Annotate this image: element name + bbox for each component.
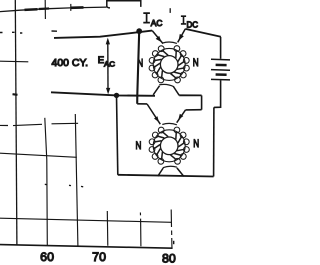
- arrowhead into T2 right winding: [178, 114, 183, 120]
- wire: battery top to corner: [220, 37, 222, 59]
- label I_DC: [181, 16, 198, 29]
- axis line bottom: [0, 245, 173, 249]
- svg-text:N: N: [137, 58, 143, 70]
- label N left of T1: [137, 58, 143, 70]
- svg-text:70: 70: [92, 250, 106, 264]
- wire: diagonal into T2 left winding: [147, 104, 160, 124]
- svg-text:60: 60: [40, 250, 54, 264]
- axis label 60: [40, 250, 54, 264]
- grid vertical line x=107: [106, 211, 109, 246]
- svg-text:AC: AC: [104, 60, 116, 69]
- wire: right side of lower loop: [213, 107, 215, 176]
- battery B1: [211, 59, 230, 80]
- svg-text:N: N: [136, 140, 142, 152]
- wire: top DC line: [185, 29, 221, 37]
- label 400 CY.: [52, 57, 89, 69]
- wire: down right of T1: [201, 95, 203, 109]
- curve thick dash 3: [71, 6, 84, 9]
- arrowhead I_AC into T1: [156, 36, 162, 42]
- axis label 70: [92, 250, 106, 264]
- grid h-line y=154: [0, 153, 77, 157]
- axis end double tick: [173, 241, 175, 244]
- grid h-line y=94 remnant: [13, 93, 18, 96]
- wire: stub to toroid T2 left: [137, 103, 147, 105]
- voltage arrow E_AC: [106, 38, 111, 95]
- junction dot B bottom wire: [114, 93, 119, 98]
- svg-text:AC: AC: [151, 19, 163, 28]
- wire: I_DC lead into T1: [178, 29, 186, 43]
- grid vertical tick x=45 top: [44, 0, 46, 19]
- wire: T2 bottom-right lead: [177, 168, 184, 177]
- grid vertical line x=47 lower: [45, 118, 48, 246]
- wire: jog to battery bottom: [214, 80, 221, 107]
- wire: bottom of lower loop: [118, 175, 214, 177]
- grid h-line y=61: [0, 60, 28, 63]
- arrowhead I_DC into T1: [179, 34, 184, 41]
- wire: horizontal to T2 right lead: [186, 109, 202, 111]
- curve thick dash 1: [25, 8, 38, 11]
- label I_AC: [143, 13, 162, 28]
- grid h-line y=32 remnant dots: [0, 31, 57, 33]
- label N right of T2: [193, 138, 199, 150]
- junction dot A top: [136, 28, 142, 34]
- wire: I_AC lead into T1: [152, 31, 163, 44]
- svg-text:N: N: [193, 57, 199, 69]
- wire: T1 bottom-left lead to bottom AC line: [153, 86, 159, 95]
- curve thick dash 2: [39, 7, 49, 10]
- label N left of T2: [136, 140, 142, 152]
- svg-text:DC: DC: [187, 20, 199, 29]
- data curve top: [0, 7, 107, 12]
- wire: T1 bottom-right lead: [173, 87, 179, 96]
- wire: left side of lower loop: [117, 95, 118, 174]
- tick at x=71 on curve: [70, 4, 72, 11]
- arrowhead into T2 left winding: [154, 116, 159, 122]
- grid h-line y=186 remnant dots: [45, 184, 83, 187]
- grid h-line y=219: [0, 218, 172, 222]
- axis label 80: [162, 252, 176, 265]
- grid h-line y=126 dash-dot: [0, 123, 78, 125]
- toroid core T2: [149, 123, 189, 167]
- label N right of T1: [193, 57, 199, 69]
- grid vertical line x=16: [15, 0, 17, 245]
- wire: T2 bottom-left lead: [158, 168, 163, 176]
- svg-text:400 CY.: 400 CY.: [52, 57, 89, 69]
- svg-text:80: 80: [162, 252, 176, 265]
- toroid core T1: [149, 42, 189, 87]
- svg-text:N: N: [193, 138, 199, 150]
- wire: T1 right exit horizontal: [179, 94, 201, 96]
- grid vertical line x=140: [139, 213, 142, 247]
- wire: left vertical from dot: [137, 31, 139, 104]
- wire: top AC line: [54, 31, 152, 38]
- grid vertical line x=77: [75, 114, 78, 246]
- grid vertical line x=171: [170, 210, 173, 249]
- tick at x=170 top: [169, 8, 171, 13]
- label E_AC: [98, 55, 116, 69]
- top cropped box bracket: [107, 0, 141, 8]
- wire: diagonal into T2 right winding: [177, 110, 186, 123]
- wire: bottom AC line: [51, 92, 155, 96]
